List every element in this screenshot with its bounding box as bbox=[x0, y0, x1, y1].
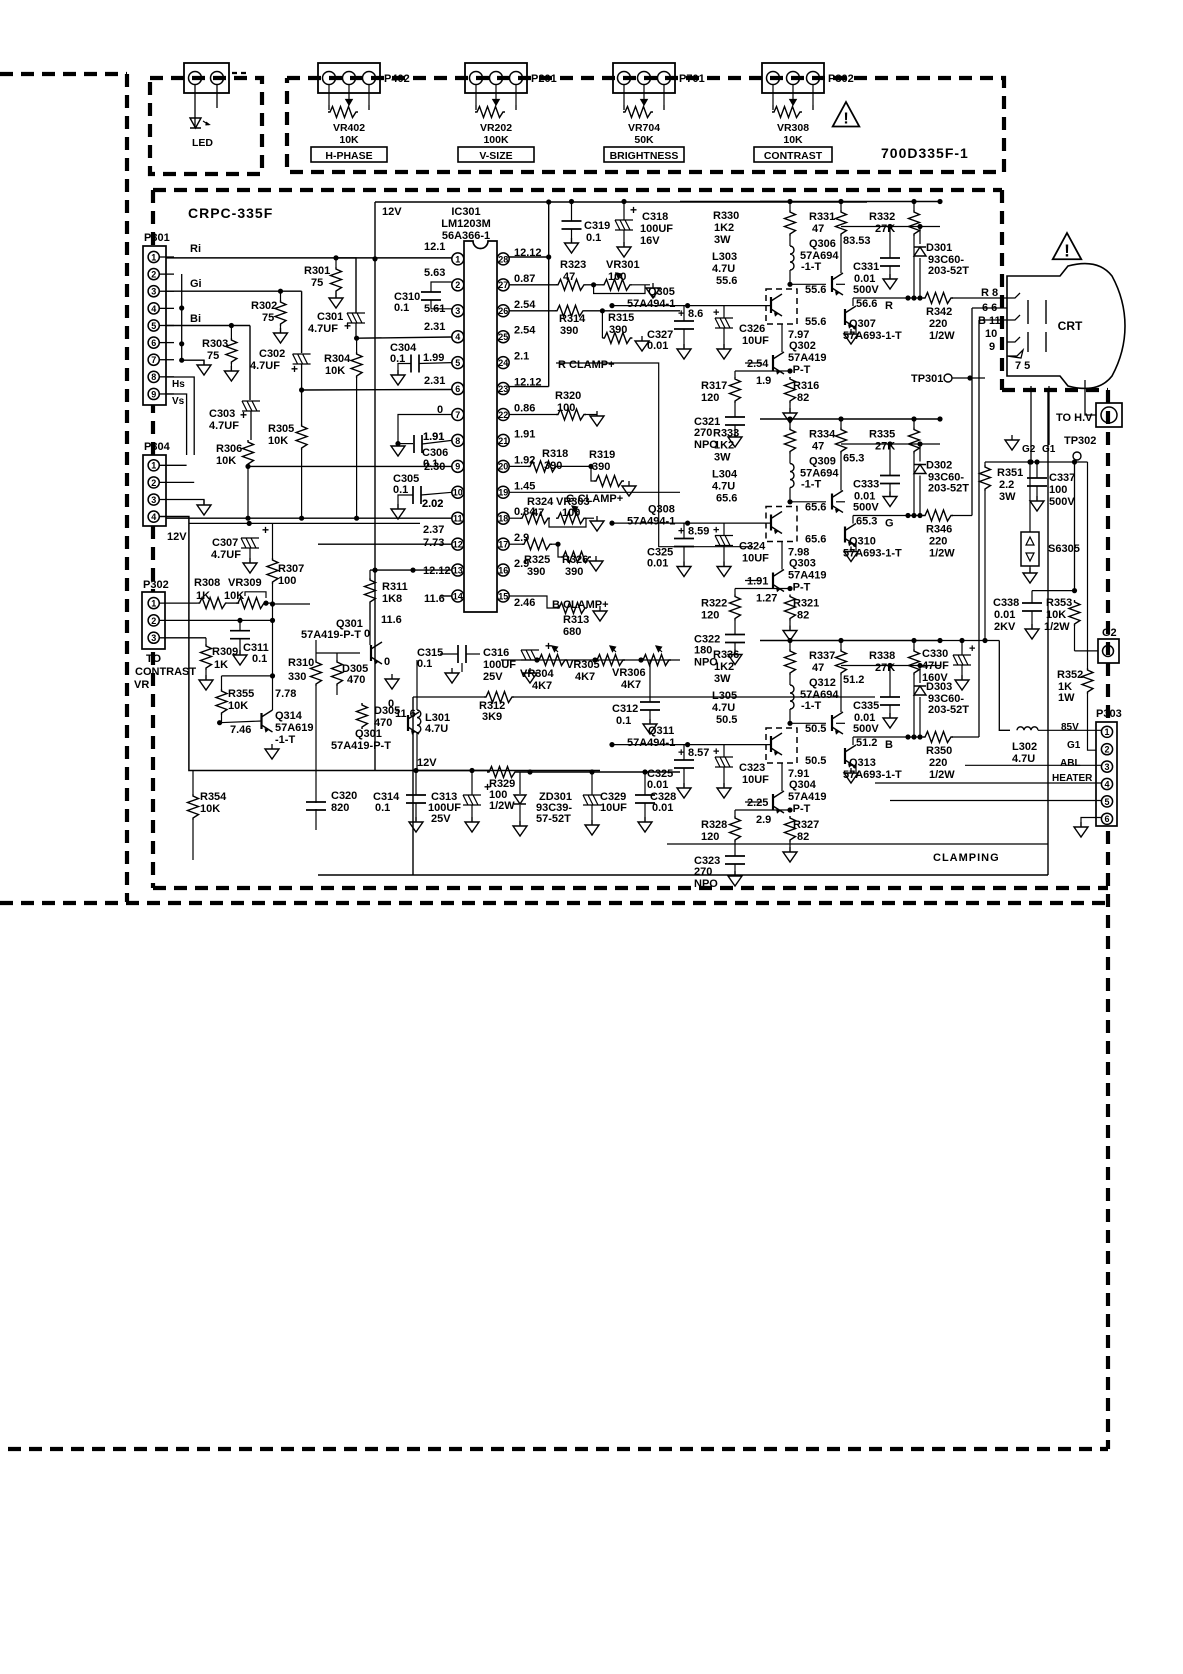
wire R304 vertical below bbox=[356, 390, 358, 518]
ground C338 bbox=[1025, 629, 1039, 639]
wire main board dashed frame bbox=[153, 188, 1002, 192]
svg-text:3W: 3W bbox=[714, 234, 731, 246]
svg-text:50.5: 50.5 bbox=[716, 714, 737, 726]
svg-text:HEATER: HEATER bbox=[1052, 773, 1093, 784]
svg-text:P303: P303 bbox=[1096, 708, 1122, 720]
svg-text:P302: P302 bbox=[828, 73, 854, 85]
ground C313 bbox=[465, 822, 479, 832]
svg-text:Gi: Gi bbox=[190, 278, 202, 290]
svg-text:120: 120 bbox=[701, 610, 719, 622]
pin 4 IC301 bbox=[452, 331, 464, 343]
svg-text:Q301: Q301 bbox=[355, 728, 382, 740]
svg-text:75: 75 bbox=[262, 312, 274, 324]
svg-text:57A693-1-T: 57A693-1-T bbox=[843, 330, 902, 342]
ground S6305 bbox=[1023, 573, 1037, 583]
wire clamp B top bus bbox=[760, 640, 940, 642]
svg-text:17: 17 bbox=[498, 540, 508, 550]
op-amp U-IC301 body bbox=[464, 241, 497, 612]
svg-text:1W: 1W bbox=[1058, 692, 1075, 704]
svg-text:65.6: 65.6 bbox=[805, 502, 826, 514]
wire C302 down bbox=[301, 364, 303, 424]
svg-text:CRPC-335F: CRPC-335F bbox=[188, 205, 273, 221]
wire pin7 loop bbox=[398, 415, 452, 444]
svg-text:4: 4 bbox=[1104, 779, 1109, 789]
wire C306 lead bbox=[398, 443, 413, 445]
svg-text:10UF: 10UF bbox=[742, 553, 769, 565]
ground C316 bbox=[523, 673, 537, 683]
wire to HV bbox=[1085, 380, 1096, 415]
svg-text:G1: G1 bbox=[1067, 740, 1081, 751]
svg-text:1/2W: 1/2W bbox=[929, 769, 955, 781]
svg-text:CONTRAST: CONTRAST bbox=[764, 150, 823, 162]
svg-text:7.98: 7.98 bbox=[788, 547, 809, 559]
svg-text:12.12: 12.12 bbox=[423, 565, 451, 577]
svg-text:R302: R302 bbox=[251, 300, 277, 312]
svg-text:Q303: Q303 bbox=[789, 558, 816, 570]
svg-text:7.78: 7.78 bbox=[275, 688, 296, 700]
svg-text:57A419: 57A419 bbox=[788, 352, 827, 364]
pin 18 IC301 bbox=[497, 512, 509, 524]
ground R326 bbox=[589, 561, 603, 571]
svg-text:Bi: Bi bbox=[190, 313, 201, 325]
svg-text:R315: R315 bbox=[608, 312, 634, 324]
ground R315 bbox=[635, 341, 649, 351]
svg-text:2.54: 2.54 bbox=[514, 325, 536, 337]
svg-text:57A693-1-T: 57A693-1-T bbox=[843, 548, 902, 560]
pin 10 IC301 bbox=[452, 486, 464, 498]
svg-text:47: 47 bbox=[812, 662, 824, 674]
label BRIGHTNESS box bbox=[604, 147, 684, 162]
svg-text:VR308: VR308 bbox=[777, 122, 809, 134]
svg-text:57A419-P-T: 57A419-P-T bbox=[301, 629, 361, 641]
svg-text:1/2W: 1/2W bbox=[929, 548, 955, 560]
svg-text:19: 19 bbox=[498, 488, 508, 498]
wire 12V to clamp bbox=[680, 201, 790, 203]
svg-text:B: B bbox=[885, 739, 893, 751]
svg-text:Q312: Q312 bbox=[809, 677, 836, 689]
ground C318 bbox=[617, 247, 631, 257]
svg-text:P402: P402 bbox=[384, 73, 410, 85]
svg-text:203-52T: 203-52T bbox=[928, 265, 969, 277]
svg-text:47: 47 bbox=[812, 223, 824, 235]
svg-text:100K: 100K bbox=[483, 134, 509, 146]
ground R319 bbox=[622, 486, 636, 496]
svg-text:0.1: 0.1 bbox=[616, 715, 631, 727]
svg-text:R354: R354 bbox=[200, 791, 227, 803]
svg-text:L302: L302 bbox=[1012, 741, 1037, 753]
svg-text:R323: R323 bbox=[560, 259, 586, 271]
pin 21 IC301 bbox=[497, 434, 509, 446]
potentiometer VR402 bbox=[328, 107, 358, 118]
svg-text:2: 2 bbox=[151, 478, 156, 488]
svg-text:820: 820 bbox=[331, 802, 349, 814]
svg-text:Ri: Ri bbox=[190, 243, 201, 255]
wire P303 pin5 bbox=[890, 800, 1101, 802]
svg-text:ABL: ABL bbox=[1060, 758, 1081, 769]
svg-text:12.1: 12.1 bbox=[424, 241, 445, 253]
svg-text:10UF: 10UF bbox=[600, 802, 627, 814]
svg-text:2.37: 2.37 bbox=[423, 524, 444, 536]
svg-text:10: 10 bbox=[985, 328, 997, 340]
svg-text:TO H.V: TO H.V bbox=[1056, 412, 1093, 424]
wire pin9 net bbox=[248, 465, 452, 467]
svg-text:57A419: 57A419 bbox=[788, 570, 827, 582]
CRT envelope bbox=[1007, 264, 1125, 389]
svg-text:203-52T: 203-52T bbox=[928, 483, 969, 495]
pin 17 IC301 bbox=[497, 538, 509, 550]
ground P301 pin7 bbox=[197, 365, 211, 375]
wire P303 pin6 gnd bbox=[1081, 818, 1101, 827]
svg-text:Q307: Q307 bbox=[849, 318, 876, 330]
label V-SIZE box bbox=[458, 147, 534, 162]
ground C329 bbox=[585, 825, 599, 835]
svg-text:180: 180 bbox=[694, 645, 712, 657]
ground C328 bbox=[638, 822, 652, 832]
svg-text:R311: R311 bbox=[382, 581, 408, 593]
svg-text:Q313: Q313 bbox=[849, 757, 876, 769]
svg-text:8: 8 bbox=[455, 436, 460, 446]
resistor R346 220 1/2W bbox=[923, 510, 953, 521]
svg-text:3W: 3W bbox=[999, 491, 1016, 503]
svg-text:4.7U: 4.7U bbox=[1012, 753, 1035, 765]
wire pin26 right bbox=[602, 310, 680, 312]
pin 27 IC301 bbox=[497, 279, 509, 291]
label CONTRAST box bbox=[754, 147, 832, 162]
svg-text:Q311: Q311 bbox=[648, 725, 674, 737]
svg-text:C301: C301 bbox=[317, 311, 343, 323]
pin 20 IC301 bbox=[497, 460, 509, 472]
svg-text:!: ! bbox=[843, 110, 848, 128]
svg-text:G1: G1 bbox=[1042, 444, 1056, 455]
svg-text:57A619: 57A619 bbox=[275, 722, 314, 734]
svg-text:+: + bbox=[630, 203, 637, 217]
svg-text:R355: R355 bbox=[228, 688, 254, 700]
svg-text:16: 16 bbox=[498, 565, 508, 575]
resistor R342 220 1/2W bbox=[923, 293, 953, 304]
svg-text:100UF: 100UF bbox=[483, 659, 516, 671]
svg-text:V-SIZE: V-SIZE bbox=[479, 150, 512, 162]
wire 12V rail top bbox=[375, 201, 867, 203]
svg-text:16V: 16V bbox=[640, 235, 660, 247]
svg-text:82: 82 bbox=[797, 831, 809, 843]
svg-text:2: 2 bbox=[151, 616, 156, 626]
ground C312 bbox=[643, 724, 657, 734]
svg-text:270: 270 bbox=[694, 427, 712, 439]
svg-text:390: 390 bbox=[560, 325, 578, 337]
svg-text:VR704: VR704 bbox=[628, 122, 660, 134]
svg-text:Q314: Q314 bbox=[275, 710, 303, 722]
svg-text:+: + bbox=[713, 525, 719, 537]
svg-text:R CLAMP+: R CLAMP+ bbox=[558, 359, 615, 371]
svg-text:2: 2 bbox=[1104, 745, 1109, 755]
svg-text:1: 1 bbox=[151, 461, 156, 471]
svg-text:57A494-1: 57A494-1 bbox=[627, 516, 675, 528]
svg-text:390: 390 bbox=[565, 566, 583, 578]
svg-text:10K: 10K bbox=[325, 365, 345, 377]
svg-text:R350: R350 bbox=[926, 745, 952, 757]
wire clamp area box bbox=[318, 874, 1048, 876]
pin 1 IC301 bbox=[452, 253, 464, 265]
svg-text:VR: VR bbox=[134, 679, 149, 691]
svg-text:0: 0 bbox=[384, 656, 390, 668]
ground P303 pin6 bbox=[1074, 827, 1088, 837]
ground C315 bbox=[461, 663, 463, 672]
pin 3 IC301 bbox=[452, 305, 464, 317]
svg-text:R322: R322 bbox=[701, 598, 727, 610]
svg-text:55.6: 55.6 bbox=[805, 316, 826, 328]
svg-text:7 5: 7 5 bbox=[1015, 360, 1030, 372]
svg-text:4K7: 4K7 bbox=[532, 680, 552, 692]
wire 85V net bbox=[940, 640, 999, 642]
svg-text:TO: TO bbox=[146, 653, 162, 665]
wire C303 down bbox=[250, 411, 252, 440]
wire C307 node bbox=[247, 521, 252, 526]
svg-text:13: 13 bbox=[453, 565, 463, 575]
svg-text:270: 270 bbox=[694, 866, 712, 878]
svg-text:R301: R301 bbox=[304, 265, 330, 277]
svg-text:1.91: 1.91 bbox=[514, 428, 535, 440]
svg-text:100: 100 bbox=[1049, 484, 1067, 496]
svg-text:12V: 12V bbox=[417, 757, 437, 769]
svg-text:R334: R334 bbox=[809, 429, 836, 441]
svg-text:3W: 3W bbox=[714, 673, 731, 685]
ground C319 bbox=[565, 243, 579, 253]
svg-text:Hs: Hs bbox=[172, 379, 185, 390]
svg-text:57A693-1-T: 57A693-1-T bbox=[843, 769, 902, 781]
wire pin9 drop bbox=[166, 394, 187, 455]
svg-text:15: 15 bbox=[498, 591, 508, 601]
svg-text:2: 2 bbox=[455, 280, 460, 290]
svg-text:1K2: 1K2 bbox=[714, 222, 734, 234]
svg-text:Q302: Q302 bbox=[789, 340, 816, 352]
wire top controls dashed enclosure bbox=[287, 78, 1004, 172]
wire P201 pot leads bbox=[475, 85, 477, 105]
svg-text:R321: R321 bbox=[793, 598, 819, 610]
svg-text:10: 10 bbox=[453, 488, 463, 498]
svg-text:3: 3 bbox=[151, 633, 156, 643]
svg-text:-1-T: -1-T bbox=[801, 479, 821, 491]
wire B clamp out riser bbox=[978, 320, 980, 737]
svg-text:18: 18 bbox=[498, 514, 508, 524]
wire P304 leads bbox=[159, 464, 186, 466]
svg-text:57-52T: 57-52T bbox=[536, 813, 571, 825]
svg-text:IC301: IC301 bbox=[451, 206, 480, 218]
svg-text:2.31: 2.31 bbox=[424, 321, 445, 333]
svg-text:0.01: 0.01 bbox=[994, 609, 1015, 621]
svg-text:P701: P701 bbox=[679, 73, 705, 85]
wire G path corner bbox=[301, 291, 303, 353]
svg-text:0.1: 0.1 bbox=[423, 458, 438, 470]
svg-text:2.9: 2.9 bbox=[756, 814, 771, 826]
LED D-LED bbox=[190, 118, 201, 128]
ground Q313 bbox=[855, 764, 857, 772]
svg-text:65.3: 65.3 bbox=[843, 453, 864, 465]
svg-text:Q309: Q309 bbox=[809, 456, 836, 468]
svg-text:D305: D305 bbox=[374, 705, 400, 717]
svg-text:TP301: TP301 bbox=[911, 373, 943, 385]
svg-text:H-PHASE: H-PHASE bbox=[325, 150, 372, 162]
svg-text:R335: R335 bbox=[869, 429, 895, 441]
pin 12 IC301 bbox=[452, 538, 464, 550]
svg-text:1: 1 bbox=[151, 599, 156, 609]
pin 23 IC301 bbox=[497, 383, 509, 395]
svg-text:L304: L304 bbox=[712, 469, 738, 481]
svg-text:R317: R317 bbox=[701, 380, 727, 392]
svg-text:1/2W: 1/2W bbox=[929, 330, 955, 342]
svg-text:1K2: 1K2 bbox=[714, 440, 734, 452]
svg-text:C337: C337 bbox=[1049, 472, 1075, 484]
svg-text:57A494-1: 57A494-1 bbox=[627, 298, 675, 310]
wire pin6 net bbox=[302, 389, 452, 392]
svg-text:1.99: 1.99 bbox=[423, 352, 444, 364]
svg-text:G: G bbox=[885, 518, 894, 530]
svg-text:7.46: 7.46 bbox=[230, 724, 251, 736]
ground C307 bbox=[243, 563, 257, 573]
svg-text:6: 6 bbox=[455, 384, 460, 394]
svg-text:8.57: 8.57 bbox=[688, 747, 709, 759]
svg-text:500V: 500V bbox=[853, 723, 879, 735]
svg-text:LED: LED bbox=[192, 137, 213, 149]
wire clamp G top bus bbox=[760, 418, 940, 420]
svg-text:L305: L305 bbox=[712, 690, 737, 702]
svg-text:27K: 27K bbox=[875, 662, 895, 674]
svg-text:1K: 1K bbox=[214, 659, 228, 671]
svg-text:R336: R336 bbox=[713, 649, 739, 661]
svg-text:65.6: 65.6 bbox=[805, 534, 826, 546]
svg-text:4.7U: 4.7U bbox=[425, 723, 448, 735]
wire pins28-23 right bus bbox=[548, 202, 550, 387]
svg-text:R305: R305 bbox=[268, 423, 294, 435]
svg-text:0.01: 0.01 bbox=[647, 558, 668, 570]
svg-text:12V: 12V bbox=[167, 531, 187, 543]
svg-text:R316: R316 bbox=[793, 380, 819, 392]
svg-text:R325: R325 bbox=[524, 554, 550, 566]
svg-text:5.63: 5.63 bbox=[424, 267, 445, 279]
ground C311 bbox=[233, 655, 247, 665]
wire dash stub right of LED header bbox=[232, 72, 248, 74]
wire C338 node bbox=[1032, 590, 1075, 592]
svg-text:5: 5 bbox=[455, 358, 460, 368]
ground C314 bbox=[409, 822, 423, 832]
svg-text:R307: R307 bbox=[278, 563, 304, 575]
svg-text:4K7: 4K7 bbox=[575, 671, 595, 683]
wire C305 lead bbox=[421, 492, 452, 495]
svg-text:P304: P304 bbox=[144, 441, 171, 453]
connector P402 header bbox=[318, 63, 380, 93]
svg-text:S6305: S6305 bbox=[1048, 543, 1080, 555]
svg-text:4K7: 4K7 bbox=[621, 679, 641, 691]
ground ZD301 bbox=[513, 826, 527, 836]
pin 24 IC301 bbox=[497, 357, 509, 369]
svg-text:10K: 10K bbox=[1046, 609, 1066, 621]
pin 28 IC301 bbox=[497, 253, 509, 265]
wire Gi net bbox=[166, 290, 302, 292]
wire pin12 net bbox=[318, 543, 452, 545]
svg-text:120: 120 bbox=[701, 831, 719, 843]
svg-text:C319: C319 bbox=[584, 220, 610, 232]
svg-text:4: 4 bbox=[151, 512, 156, 522]
svg-text:G2: G2 bbox=[1022, 444, 1036, 455]
wire P303 pin3 ABL bbox=[965, 764, 1101, 766]
svg-text:25V: 25V bbox=[483, 671, 503, 683]
svg-text:R306: R306 bbox=[216, 443, 242, 455]
pin 5 IC301 bbox=[452, 357, 464, 369]
svg-text:50.5: 50.5 bbox=[805, 723, 826, 735]
svg-text:7: 7 bbox=[151, 355, 156, 365]
wire pin14 stub bbox=[440, 595, 452, 597]
svg-text:3: 3 bbox=[455, 306, 460, 316]
svg-text:10K: 10K bbox=[228, 700, 248, 712]
svg-text:100UF: 100UF bbox=[640, 223, 673, 235]
svg-text:-1-T: -1-T bbox=[275, 734, 295, 746]
ground R301 bbox=[329, 298, 343, 308]
svg-text:1K8: 1K8 bbox=[382, 593, 402, 605]
svg-text:2.54: 2.54 bbox=[514, 299, 536, 311]
svg-text:6: 6 bbox=[151, 338, 156, 348]
ground Q307 bbox=[855, 325, 857, 333]
svg-text:C303: C303 bbox=[209, 408, 235, 420]
svg-text:+: + bbox=[545, 639, 552, 653]
svg-text:51.2: 51.2 bbox=[843, 674, 864, 686]
svg-text:R 8: R 8 bbox=[981, 287, 998, 299]
svg-text:0: 0 bbox=[364, 628, 370, 640]
svg-text:2.54: 2.54 bbox=[747, 358, 769, 370]
svg-text:2.46: 2.46 bbox=[514, 597, 535, 609]
svg-text:VR309: VR309 bbox=[228, 577, 262, 589]
potentiometer VR704 bbox=[623, 107, 653, 118]
connector HV anode bbox=[1096, 403, 1122, 427]
svg-text:75: 75 bbox=[207, 350, 219, 362]
pin 15 IC301 bbox=[497, 590, 509, 602]
wire P402 pot leads bbox=[328, 85, 330, 105]
svg-text:C318: C318 bbox=[642, 211, 668, 223]
ground R302 bbox=[274, 333, 288, 343]
svg-text:10K: 10K bbox=[216, 455, 236, 467]
wire Q314 node bbox=[272, 620, 274, 676]
svg-text:C316: C316 bbox=[483, 647, 509, 659]
pin 19 IC301 bbox=[497, 486, 509, 498]
svg-text:CRT: CRT bbox=[1058, 319, 1083, 333]
wire pin8 drop bbox=[166, 377, 194, 455]
svg-text:R330: R330 bbox=[713, 210, 739, 222]
svg-text:C331: C331 bbox=[853, 261, 879, 273]
wire C301 to pin4 bbox=[355, 323, 357, 338]
svg-text:C323: C323 bbox=[739, 762, 765, 774]
svg-text:C330: C330 bbox=[922, 648, 948, 660]
svg-text:4.7UF: 4.7UF bbox=[211, 549, 241, 561]
svg-text:390: 390 bbox=[592, 461, 610, 473]
svg-text:0.1: 0.1 bbox=[252, 653, 267, 665]
svg-text:1.9: 1.9 bbox=[756, 375, 771, 387]
svg-text:3: 3 bbox=[1104, 762, 1109, 772]
svg-text:R319: R319 bbox=[589, 449, 615, 461]
svg-text:P302: P302 bbox=[143, 579, 169, 591]
pin 26 IC301 bbox=[497, 305, 509, 317]
svg-text:R327: R327 bbox=[793, 819, 819, 831]
svg-text:+: + bbox=[484, 780, 491, 794]
svg-text:57A419: 57A419 bbox=[788, 791, 827, 803]
wire clamp R top bus bbox=[760, 201, 940, 203]
svg-text:10K: 10K bbox=[268, 435, 288, 447]
svg-text:1.91: 1.91 bbox=[747, 576, 768, 588]
wire P302 pot leads bbox=[772, 85, 774, 105]
svg-text:C335: C335 bbox=[853, 700, 879, 712]
svg-text:0.1: 0.1 bbox=[417, 658, 432, 670]
svg-text:0.01: 0.01 bbox=[647, 779, 668, 791]
wire lower board dashed frame bbox=[0, 901, 1108, 905]
svg-text:203-52T: 203-52T bbox=[928, 704, 969, 716]
svg-text:10UF: 10UF bbox=[742, 335, 769, 347]
